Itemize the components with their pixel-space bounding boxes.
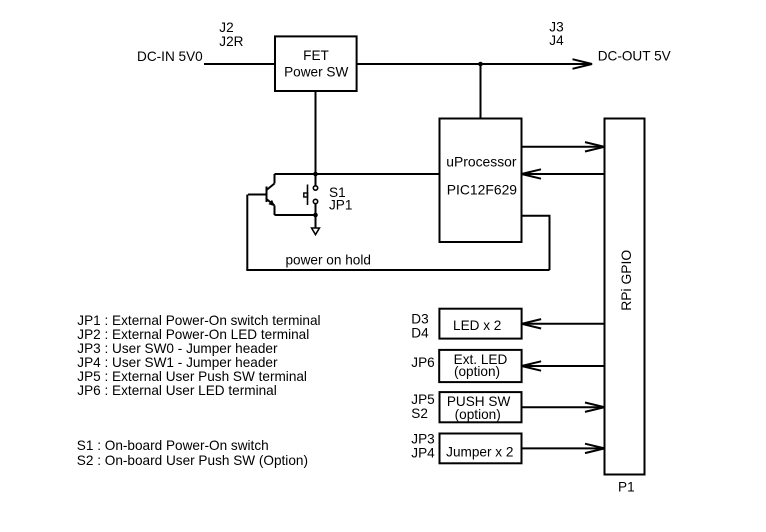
block FET Power SW xyxy=(275,36,357,91)
block RPi GPIO xyxy=(605,119,645,475)
svg-text:JP1: JP1 xyxy=(329,197,352,212)
block PUSH SW (option) xyxy=(440,392,522,422)
arrow RPi GPIO to Ext. LED xyxy=(522,361,605,370)
svg-text:(option): (option) xyxy=(454,364,500,379)
svg-text:JP5: JP5 xyxy=(411,392,434,407)
connector label J3 / J4 xyxy=(549,20,564,49)
svg-text:JP5 : External User Push SW te: JP5 : External User Push SW terminal xyxy=(77,369,307,384)
svg-text:power on hold: power on hold xyxy=(286,253,371,268)
svg-text:DC-IN 5V0: DC-IN 5V0 xyxy=(137,49,203,64)
svg-text:JP3 : User SW0 - Jumper header: JP3 : User SW0 - Jumper header xyxy=(77,341,278,356)
wire emitter to bottom junction xyxy=(275,214,316,216)
legend S1 S2 xyxy=(77,438,308,468)
junction at switch bottom xyxy=(313,213,318,218)
wire FET bottom down to switch junction xyxy=(315,91,317,174)
svg-text:LED x 2: LED x 2 xyxy=(453,318,501,333)
svg-text:uProcessor: uProcessor xyxy=(446,154,517,170)
arrow PUSH SW to RPi GPIO xyxy=(522,403,605,412)
svg-text:JP3: JP3 xyxy=(411,432,434,447)
arrow Jumper x 2 to RPi GPIO xyxy=(522,444,605,453)
svg-text:P1: P1 xyxy=(618,479,635,494)
label D3 / D4 xyxy=(411,312,429,341)
label S1 / JP1 xyxy=(329,185,352,212)
svg-text:PIC12F629: PIC12F629 xyxy=(447,181,518,197)
arrow RPi GPIO to LED x 2 xyxy=(522,319,605,328)
svg-text:S1 : On-board Power-On switch: S1 : On-board Power-On switch xyxy=(77,438,269,453)
label JP3 / JP4 xyxy=(411,432,435,461)
wire 5V rail down to uProcessor xyxy=(480,64,482,119)
svg-text:Power SW: Power SW xyxy=(284,65,348,80)
junction on 5V rail xyxy=(478,62,483,67)
block Jumper x 2 xyxy=(440,434,522,464)
svg-text:DC-OUT 5V: DC-OUT 5V xyxy=(598,49,671,64)
svg-text:FET: FET xyxy=(303,48,329,63)
block LED x 2 xyxy=(439,309,521,339)
connector label J2 / J2R xyxy=(219,20,243,49)
legend JP1-JP6 xyxy=(77,313,320,398)
label JP5 / S2 xyxy=(411,392,434,421)
wire DC-IN to FET box xyxy=(204,63,275,65)
svg-text:JP1 : External Power-On switch: JP1 : External Power-On switch terminal xyxy=(77,313,320,328)
svg-text:S2: S2 xyxy=(411,406,428,421)
svg-text:JP6: JP6 xyxy=(411,355,434,370)
arrow head DC-OUT xyxy=(573,59,593,69)
wire uProcessor to power on hold xyxy=(522,215,551,217)
svg-text:RPi GPIO: RPi GPIO xyxy=(618,250,634,311)
wire transistor base to power-on-hold xyxy=(246,195,248,271)
wire power on hold bottom run xyxy=(246,269,549,271)
junction at switch top xyxy=(313,172,318,177)
open arrow down (discharge) xyxy=(312,228,320,235)
wire junction to uProcessor left edge xyxy=(275,173,440,175)
block uProcessor PIC12F629 xyxy=(440,119,522,243)
svg-text:D4: D4 xyxy=(411,326,429,341)
arrow uProcessor to RPi GPIO xyxy=(522,142,605,151)
svg-text:S2 : On-board User Push SW (Op: S2 : On-board User Push SW (Option) xyxy=(77,453,308,468)
svg-text:JP2 : External Power-On LED te: JP2 : External Power-On LED terminal xyxy=(77,327,309,342)
switch S1 xyxy=(304,174,318,215)
transistor Q1 xyxy=(248,174,275,215)
svg-text:JP4 : User SW1 - Jumper header: JP4 : User SW1 - Jumper header xyxy=(77,355,278,370)
block Ext. LED (option) xyxy=(439,350,521,382)
svg-text:JP4: JP4 xyxy=(411,446,435,461)
svg-text:D3: D3 xyxy=(411,312,428,327)
svg-text:J2: J2 xyxy=(219,20,233,35)
svg-text:J4: J4 xyxy=(549,33,564,48)
wire power on hold right riser xyxy=(549,216,551,270)
svg-text:JP6 : External User LED termin: JP6 : External User LED terminal xyxy=(77,383,276,398)
svg-text:Jumper x 2: Jumper x 2 xyxy=(446,445,513,460)
svg-text:J2R: J2R xyxy=(219,34,243,49)
wire FET output to DC-OUT arrow xyxy=(357,63,591,65)
wire down from bottom junction xyxy=(315,215,317,228)
svg-text:(option): (option) xyxy=(455,407,501,422)
arrow RPi GPIO to uProcessor xyxy=(522,169,605,178)
